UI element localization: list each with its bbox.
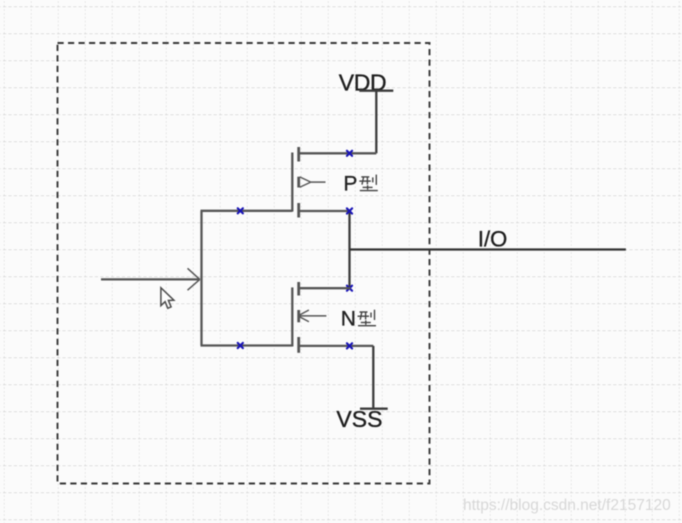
svg-text:I/O: I/O [478,226,507,251]
dashed selection boundary box [58,43,430,484]
transistor label N型 [341,307,376,330]
junction X at VDD-PMOS source bar [347,151,352,156]
junction X at NMOS source bar [347,343,352,348]
svg-text:VSS: VSS [336,406,382,432]
wire PMOS drain to NMOS drain [348,211,350,288]
wire VDD rail to PMOS source [375,91,377,154]
wire gate to NMOS [201,344,293,346]
junction X at NMOS drain [347,286,352,291]
junction X at PMOS drain [347,208,352,213]
wire NMOS source to VSS rail [372,346,374,409]
junction X on PMOS gate wire [238,208,243,213]
input arrow [101,268,200,290]
transistor P型 (PMOS) [292,147,376,218]
transistor label P型 [343,172,377,195]
junction X on NMOS gate wire [238,343,243,348]
wire gate to PMOS [201,210,293,212]
svg-text:N: N [341,307,356,330]
svg-text:P: P [343,172,357,195]
wire gate bus vertical [200,211,202,346]
mouse cursor [161,288,174,309]
power rail VDD bar [359,90,393,92]
svg-text:https://blog.csdn.net/f2157120: https://blog.csdn.net/f2157120 [463,497,671,514]
power rail VSS bar [360,408,388,410]
wire output to I/O [350,248,626,250]
transistor N型 (NMOS) [292,282,373,353]
